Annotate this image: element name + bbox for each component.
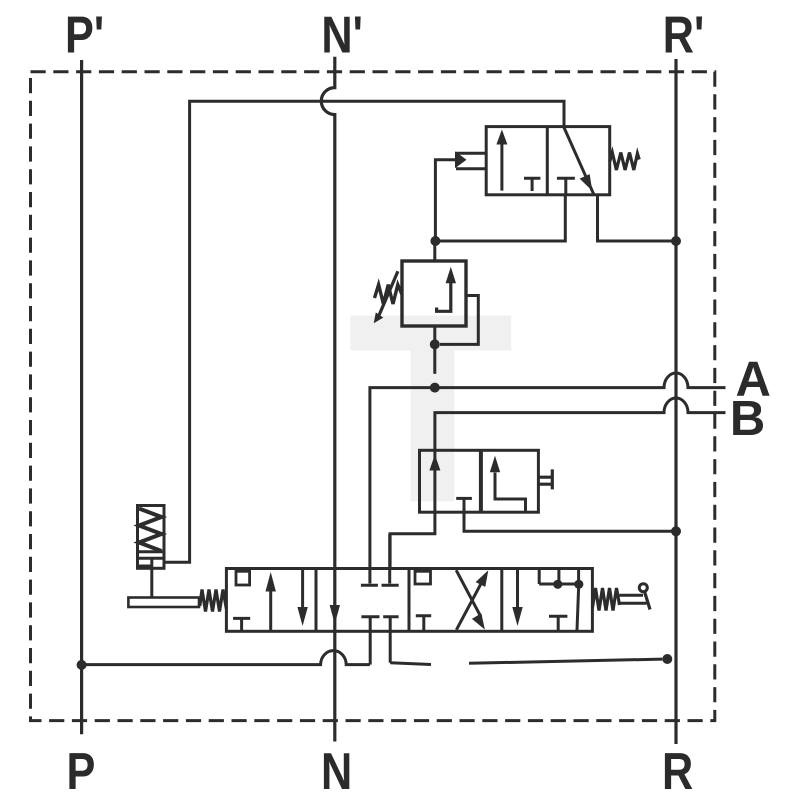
V4 s2 N passage arrow head	[330, 605, 340, 624]
V4 s4 detent ball left	[553, 580, 562, 589]
V1 return spring	[610, 153, 640, 171]
bottom rail wire from P	[82, 651, 370, 665]
port line R	[674, 59, 677, 744]
V1 position divider	[546, 127, 549, 195]
node junction on P line	[77, 660, 87, 670]
label P	[67, 744, 96, 800]
V4 manual lever rod	[128, 598, 199, 608]
V1 pilot actuator triangle	[455, 151, 467, 168]
wire line A	[370, 373, 726, 584]
V4 s4 detent ball right	[574, 580, 583, 589]
V4 s1 small square	[236, 571, 250, 585]
svg-text:N': N'	[321, 7, 363, 64]
label N	[321, 744, 352, 800]
label A	[736, 353, 771, 407]
V1 left position up arrow	[500, 143, 503, 191]
V4 right lever knob circle	[639, 584, 647, 592]
V3 drain wire to R line	[464, 498, 675, 531]
V4 divider 1	[315, 569, 318, 632]
label P'	[65, 7, 104, 64]
label N'	[321, 7, 363, 64]
V4 s1 blocked port T	[233, 618, 250, 631]
wire V1 left bottom port to node	[436, 195, 565, 241]
valve V2 pressure reducing valve body	[402, 261, 466, 326]
node rail end dot	[662, 654, 672, 664]
svg-text:N: N	[321, 744, 352, 800]
V4 s2 bottom blocked T left	[361, 617, 379, 665]
node junction V1 pilot	[430, 236, 440, 246]
V4 s3 small square	[415, 571, 431, 584]
valve V3 check valve block body	[420, 450, 539, 512]
spring box zigzag	[139, 509, 162, 552]
watermark T	[350, 316, 511, 502]
V2 internal flow arrow	[437, 283, 451, 311]
V3 plugged pilot port tab	[538, 469, 552, 489]
V4 s2 top blocked T right	[382, 534, 399, 586]
svg-text:R': R'	[663, 7, 705, 64]
svg-text:R: R	[662, 744, 693, 800]
wire V2 bottom port	[433, 326, 436, 374]
V4 s4 detent structure	[539, 569, 578, 585]
wire node to pressure valve	[433, 241, 436, 261]
V4 s4 detent slant line	[577, 588, 579, 630]
V1 right position blocked port T	[557, 178, 575, 195]
node junction V2 feedback	[430, 339, 440, 349]
V4 s1 down arrow	[301, 569, 304, 608]
V4 divider 3	[500, 569, 503, 632]
V4 s3 cross arrow up	[456, 578, 484, 630]
V3 left up arrow head	[429, 455, 440, 471]
V3 divider	[479, 450, 483, 512]
enclosure dashed border	[31, 72, 715, 721]
bottom rail stub	[390, 663, 431, 665]
valve V4 main directional valve body	[226, 569, 592, 632]
label R'	[663, 7, 705, 64]
V1 pilot actuator box lines	[456, 153, 486, 169]
svg-text:P': P'	[65, 7, 104, 64]
op valve V1 3/2 pilot valve body	[486, 127, 610, 195]
V4 s2 bottom blocked T right	[383, 617, 398, 663]
detent release spring box	[138, 506, 165, 569]
port line N	[321, 57, 335, 742]
V3 right arrow with step	[495, 473, 526, 513]
wire pilot to V1	[435, 160, 455, 241]
V4 s4 down arrow	[516, 569, 519, 608]
wire line B	[435, 398, 726, 450]
V4 s1 up arrow	[269, 591, 272, 631]
node junction on line A	[430, 383, 440, 393]
V4 right lever fork	[619, 595, 646, 603]
port line P	[80, 60, 83, 734]
V4 right lever arm	[645, 592, 651, 610]
spring box stem to lever	[150, 558, 153, 597]
svg-text:P: P	[67, 744, 96, 800]
node junction drain on R	[671, 526, 681, 536]
V1 left position blocked port T	[524, 178, 540, 191]
V2 adjustment arrow	[379, 271, 398, 316]
node junction on R line	[671, 236, 681, 246]
V3 left blocked port T	[456, 497, 472, 500]
V3 left passage line to main valve	[390, 450, 435, 568]
V4 divider 2	[408, 569, 411, 632]
V4 s2 top blocked T left	[361, 584, 378, 587]
wire V1 right bottom port to R	[598, 195, 675, 241]
V4 s3 cross arrow down	[456, 570, 481, 617]
V2 pilot feedback loop	[440, 296, 478, 345]
bottom rail open segment to R	[469, 659, 662, 663]
spring box piston lines	[138, 552, 165, 566]
V2 adjustable spring	[375, 285, 403, 304]
V4 s3 blocked port T	[416, 616, 431, 632]
V1 right position diagonal arrow	[564, 127, 594, 195]
label B	[730, 392, 765, 446]
V4 s4 blocked port T	[549, 616, 567, 631]
svg-text:B: B	[730, 392, 765, 446]
V4 right spring	[592, 588, 619, 611]
V4 left return spring	[200, 590, 227, 612]
wire pilot feed from top to spring box	[164, 101, 564, 562]
label R	[662, 744, 693, 800]
